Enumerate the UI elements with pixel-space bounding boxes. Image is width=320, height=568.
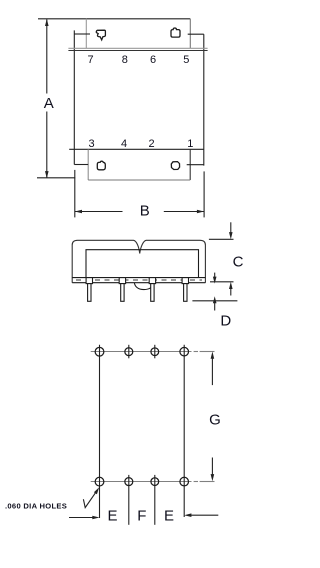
hole bottom row 4 — [180, 477, 189, 486]
svg-text:.060 DIA HOLES: .060 DIA HOLES — [5, 502, 67, 511]
hole top row 2 — [125, 348, 133, 356]
dim G bottom arrowhead (down) — [211, 474, 215, 481]
body top-right shoulder — [188, 33, 204, 35]
bottom hole row centerline — [91, 481, 192, 483]
svg-text:C: C — [233, 253, 244, 270]
left column line — [99, 345, 101, 518]
svg-text:2: 2 — [148, 138, 154, 150]
hole bottom row 1 — [95, 477, 104, 486]
lamination double line upper — [68, 47, 207, 49]
right column line — [183, 345, 185, 517]
body outline with tape humps — [72, 240, 205, 282]
dim D top arrow stem — [214, 273, 216, 278]
top mounting flange — [86, 18, 190, 20]
svg-text:1: 1 — [187, 138, 193, 150]
leader arrowhead — [94, 487, 99, 494]
dim D bottom arrow stem — [214, 302, 216, 311]
svg-text:E: E — [164, 508, 174, 525]
dim A bottom extension line — [37, 177, 75, 179]
svg-text:8: 8 — [122, 54, 128, 66]
hole top row 4 — [180, 347, 189, 356]
pin 3 (side view) — [149, 278, 155, 302]
column 3 top tick — [154, 345, 156, 359]
dim D bottom extension line — [192, 300, 237, 302]
top row dash — [194, 351, 198, 353]
dim B line right segment — [164, 211, 204, 213]
dim B left extension line — [74, 170, 76, 218]
shared C/D extension line — [210, 281, 234, 283]
body bottom-left shoulder — [74, 164, 88, 166]
pin 4 (side view) — [182, 278, 188, 302]
svg-text:G: G — [209, 412, 221, 429]
svg-text:B: B — [140, 203, 150, 220]
dim D bottom arrowhead (up) — [213, 296, 217, 303]
svg-text:6: 6 — [150, 54, 156, 66]
dim C bottom arrow stem — [230, 288, 232, 296]
svg-text:3: 3 — [88, 138, 94, 150]
dim A top extension line — [38, 18, 86, 20]
svg-text:4: 4 — [121, 138, 127, 150]
body top-left shoulder — [74, 33, 90, 35]
svg-text:F: F — [137, 508, 146, 525]
dim C top arrowhead (down) — [229, 232, 233, 239]
leader line to .060 hole — [83, 492, 96, 508]
lamination double line lower — [68, 50, 207, 52]
body left edge — [73, 30, 75, 164]
hole bottom row 3 — [151, 478, 159, 486]
dim G top extension line — [200, 351, 215, 353]
body bottom-right shoulder — [187, 164, 204, 166]
dim C bottom arrowhead (up) — [229, 282, 233, 289]
hole top row 1 — [95, 347, 104, 356]
dim B line left segment — [75, 211, 123, 213]
svg-text:7: 7 — [87, 54, 93, 66]
dim A vertical line upper segment — [46, 19, 48, 93]
dim A vertical line lower segment — [46, 112, 48, 178]
svg-text:D: D — [220, 312, 231, 329]
svg-text:5: 5 — [183, 54, 189, 66]
dim E right outside arrow line — [191, 514, 219, 516]
dim G bottom arrow stem — [211, 458, 213, 476]
top flange right mounting hole — [171, 28, 180, 37]
body right edge — [203, 34, 205, 165]
pin 2 (side view) — [119, 278, 125, 302]
svg-text:A: A — [44, 95, 54, 112]
dim E left arrowhead (right) — [92, 516, 99, 520]
base hidden dashed line — [76, 279, 202, 281]
hole bottom row 2 — [125, 478, 133, 486]
top flange left mounting hole — [96, 30, 105, 40]
dim E left outside arrow line — [69, 517, 93, 519]
dim E right arrowhead (left) — [184, 513, 191, 517]
bottom row dash — [194, 481, 198, 483]
center bobbin arc below base — [134, 283, 154, 290]
bottom flange right mounting hole — [171, 162, 179, 170]
dim A arrow down — [45, 171, 49, 178]
dim G top arrow stem — [211, 358, 213, 386]
column 2 top tick — [128, 345, 130, 359]
dim B arrow left — [75, 210, 82, 214]
dim A arrow up — [45, 19, 49, 26]
dim G top arrowhead (up) — [211, 352, 215, 359]
dim C top extension line — [209, 238, 234, 240]
column 2 bottom tick and extension — [128, 475, 130, 525]
dim B arrow right — [197, 210, 204, 214]
dim B right extension line — [203, 171, 205, 217]
dim C top arrow stem — [230, 222, 232, 232]
base plate top line — [72, 277, 205, 279]
dim D top arrowhead (down) — [213, 277, 217, 284]
hole top row 3 — [151, 348, 159, 356]
bottom flange left mounting hole — [97, 161, 105, 170]
top hole row centerline — [91, 351, 192, 353]
pin 1 (side view) — [86, 278, 92, 302]
lamination bottom line — [69, 148, 203, 150]
core lamination inner outline — [86, 250, 199, 278]
bottom mounting flange — [87, 149, 89, 180]
column 3 bottom tick and extension — [154, 475, 156, 525]
base plate bottom line — [72, 282, 205, 284]
dim G bottom extension line — [200, 481, 215, 483]
svg-text:E: E — [107, 508, 117, 525]
